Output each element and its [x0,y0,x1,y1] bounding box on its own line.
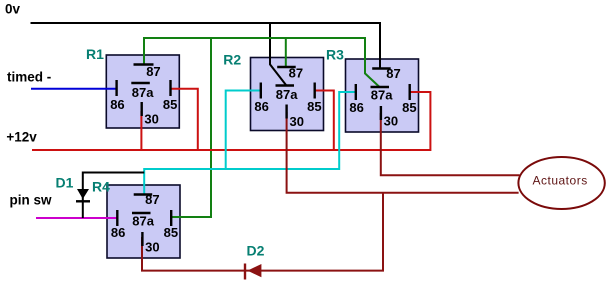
svg-text:R1: R1 [86,46,104,62]
svg-text:87a: 87a [132,214,154,229]
svg-text:timed -: timed - [7,70,51,85]
svg-text:87: 87 [386,66,400,81]
svg-text:30: 30 [384,113,398,128]
svg-text:0v: 0v [5,2,21,17]
svg-text:30: 30 [145,239,159,254]
svg-text:86: 86 [110,97,124,112]
svg-text:87: 87 [145,192,159,207]
svg-text:30: 30 [290,114,304,129]
svg-text:87a: 87a [132,85,154,100]
svg-text:D2: D2 [247,243,265,259]
svg-text:87a: 87a [276,87,298,102]
svg-text:R4: R4 [92,178,110,194]
svg-text:30: 30 [144,111,158,126]
svg-text:85: 85 [307,99,321,114]
svg-text:85: 85 [164,225,178,240]
svg-text:D1: D1 [56,175,74,191]
svg-text:87a: 87a [371,88,393,103]
svg-text:87: 87 [146,64,160,79]
svg-text:86: 86 [254,99,268,114]
svg-text:Actuators: Actuators [533,174,588,188]
svg-text:86: 86 [349,100,363,115]
svg-text:R2: R2 [223,51,241,67]
svg-text:R3: R3 [326,47,344,63]
svg-text:86: 86 [111,225,125,240]
svg-text:87: 87 [289,66,303,81]
svg-text:pin sw: pin sw [10,193,53,208]
svg-text:+12v: +12v [6,130,37,145]
svg-text:85: 85 [402,100,416,115]
svg-text:85: 85 [163,97,177,112]
